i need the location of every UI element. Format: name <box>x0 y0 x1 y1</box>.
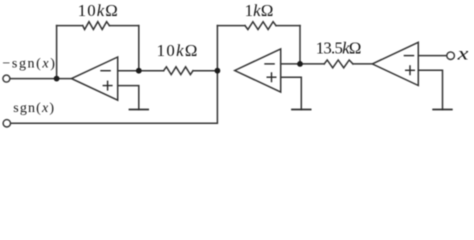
svg-text:1kΩ: 1kΩ <box>245 1 274 20</box>
wire feedback2 left vertical <box>216 26 218 71</box>
op-amp U1 triangle <box>72 57 118 100</box>
op-amp U3 minus sign <box>404 55 415 57</box>
svg-text:10kΩ: 10kΩ <box>157 41 198 60</box>
ground bar U3 <box>432 109 452 111</box>
op-amp U3 triangle <box>372 42 418 85</box>
svg-text:13.5kΩ: 13.5kΩ <box>316 38 362 57</box>
wire op3 minus stub out <box>418 55 446 57</box>
svg-text:sgn(x): sgn(x) <box>13 101 54 116</box>
op-amp U1 plus sign <box>103 81 113 91</box>
junction dot node B input U2 <box>215 68 221 74</box>
wire input2 bottom <box>10 71 217 124</box>
wire input1 horizontal <box>10 78 72 80</box>
wire feedback1 left vertical <box>56 26 58 79</box>
wire op2 minus stub to resistor <box>281 63 325 65</box>
junction dot input node U1 <box>54 76 60 82</box>
ground bar U2 <box>291 109 311 111</box>
wire feedback1 top left <box>57 25 83 27</box>
wire node A to node B <box>193 70 217 72</box>
ground bar U1 <box>129 109 149 111</box>
svg-text:10kΩ: 10kΩ <box>78 1 118 20</box>
resistor R2 10k series zigzag <box>164 67 193 75</box>
op-amp U2 plus sign <box>267 72 277 82</box>
wire feedback2 top left <box>217 25 245 27</box>
resistor R4 13.5k zigzag <box>324 60 353 68</box>
svg-text:x: x <box>456 43 469 63</box>
wire op3 plus stub down <box>418 70 442 109</box>
junction dot node A <box>136 68 142 74</box>
op-amp U1 minus sign <box>100 70 111 72</box>
terminal circle output x <box>447 52 455 60</box>
junction dot node C output U2 <box>297 61 303 67</box>
wire feedback1 right vertical <box>138 26 140 71</box>
resistor R3 1k feedback zigzag <box>245 22 276 30</box>
resistor R1 10k feedback zigzag <box>83 22 110 30</box>
op-amp U2 triangle <box>235 49 281 92</box>
wire feedback1 top right <box>109 25 138 27</box>
wire op1 plus stub down <box>118 86 139 110</box>
terminal circle input sgn(x) <box>3 120 10 127</box>
wire op1 minus stub to node A <box>118 70 164 72</box>
wire feedback2 right vertical <box>299 26 301 64</box>
op-amp U3 plus sign <box>405 65 415 75</box>
wire resistor to op3 apex <box>353 63 372 65</box>
wire op2 plus stub down <box>281 77 302 109</box>
op-amp U2 minus sign <box>264 63 275 65</box>
wire feedback2 top right <box>276 25 300 27</box>
terminal circle input -sgn(x) <box>3 75 10 82</box>
